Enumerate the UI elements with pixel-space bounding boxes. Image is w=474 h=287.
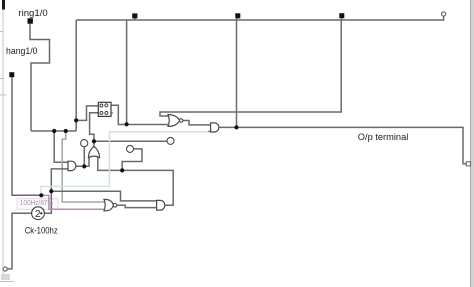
wire NOR2 output jog to AND3 bottom input — [117, 205, 157, 207]
NOR gate G3 — [168, 115, 183, 127]
AND gate G4 — [211, 123, 219, 132]
input pin square S3 on rail — [339, 13, 344, 20]
wire AND1 bottom input and clock vertical x=51.3 — [44, 169, 68, 213]
wire J6 to terminal circle C — [94, 140, 167, 142]
OR gate G2 pointing up — [88, 146, 99, 157]
wire terminal circle B path to J10 — [122, 149, 142, 171]
input pin hang1/0 — [9, 72, 14, 77]
wire AND2 output O/p line to output terminal — [219, 127, 466, 163]
wire stub AND2 bottom input — [208, 130, 210, 133]
svg-text:2: 2 — [35, 209, 41, 220]
junction dot J4 — [125, 122, 129, 126]
wire J3 to IC box top-left pin — [76, 106, 98, 121]
wire AND1 output to OR-up left stub — [76, 157, 89, 166]
junction dot J5 — [234, 125, 238, 129]
wire terminal circle A drop to J9 — [83, 147, 85, 167]
wire top rail y=20 — [76, 16, 443, 20]
terminal circle C — [167, 137, 174, 144]
violet wire J7 to NOR2 bottom input — [41, 195, 106, 209]
junction dot J7 — [39, 193, 43, 197]
wire IC box bottom-left pin to J6 — [90, 113, 99, 142]
pink selection box around clock label — [17, 199, 58, 210]
wire drop x=236.5 from rail to J5 — [236, 20, 238, 127]
left window border — [0, 0, 14, 282]
junction dot J6 — [92, 139, 96, 143]
AND gate G6 — [157, 200, 165, 210]
wire big loop vertical x=76.2 — [75, 20, 77, 131]
terminal circle D — [3, 267, 7, 271]
input pin square S2 on rail — [235, 13, 240, 20]
svg-text:hang1/0: hang1/0 — [6, 46, 38, 56]
silver wire J2 to NOR2 top input — [62, 131, 106, 202]
junction dot J10 — [120, 168, 124, 172]
svg-text:100Hz/87%: 100Hz/87% — [20, 200, 54, 207]
wire J8 y=191.3 to AND3 top input — [51, 191, 156, 201]
svg-text:ring1/0: ring1/0 — [18, 8, 47, 18]
svg-text:O/p terminal: O/p terminal — [358, 132, 409, 142]
wire ring1/0 jog from pin — [30, 22, 50, 131]
wire NOR1 output jog to AND2 top input — [183, 121, 211, 125]
wire IC box top-right pin to NOR1 bottom input — [111, 105, 170, 124]
NOR gate G5 — [104, 199, 117, 211]
clock generator CK1 — [32, 207, 45, 220]
wire OR-up right stub, y=170.4 line, vertical to AND3 output — [98, 157, 173, 205]
output terminal small square — [466, 162, 470, 166]
junction dot J1 — [52, 129, 56, 133]
wire clock left side to terminal D — [7, 213, 32, 269]
wire hang1/0 vertical — [12, 77, 41, 195]
wire AND1 top input from J1 — [54, 131, 68, 162]
input pin ring1/0 — [28, 18, 33, 23]
wire OR-up output tip to J6 — [93, 141, 95, 147]
green wire from J7 to AND2 bottom input — [41, 132, 209, 196]
input pin square S1 on rail — [132, 13, 137, 20]
junction dot J8 — [49, 189, 53, 193]
terminal circle A — [81, 140, 88, 147]
wire drop x=126.6 from rail to J4 — [126, 20, 128, 124]
AND gate G1 — [68, 161, 76, 170]
junction dot J9 — [82, 164, 86, 168]
junction dot J2 — [64, 129, 68, 133]
right window border — [471, 0, 474, 287]
svg-text:Ck-100hz: Ck-100hz — [25, 226, 58, 236]
wire drop x=341.2 rail y=112 and hook into NOR1 top input — [160, 20, 341, 116]
terminal circle E top right — [442, 12, 446, 16]
terminal circle B — [127, 145, 134, 152]
IC box U1 — [98, 102, 113, 116]
wire ring horizontal y=131 — [31, 130, 76, 132]
junction dot J3 — [74, 118, 78, 122]
